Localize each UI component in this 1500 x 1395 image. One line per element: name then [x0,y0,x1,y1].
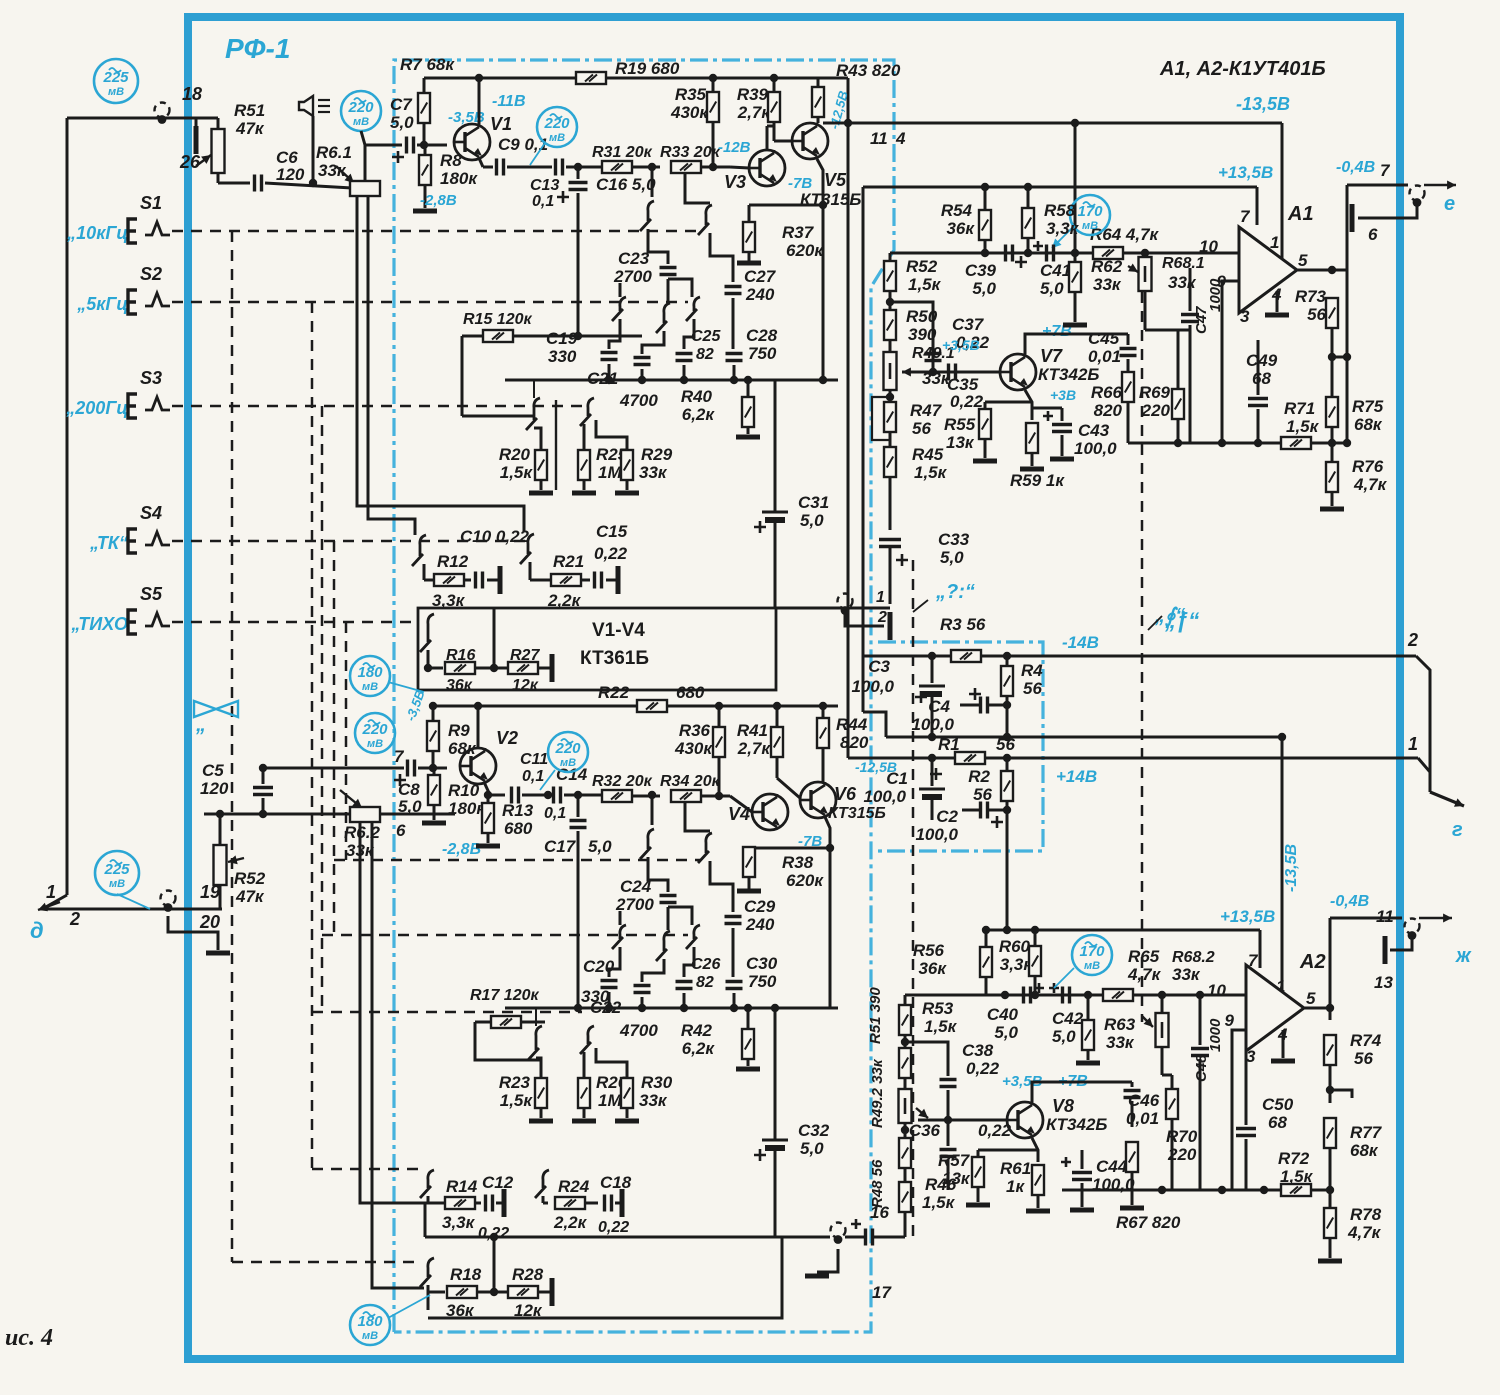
svg-text:R37: R37 [782,223,815,242]
svg-text:„?:“: „?:“ [935,581,975,603]
svg-text:3,3к: 3,3к [442,1213,476,1232]
svg-text:„ТИХО: „ТИХО [70,614,128,634]
svg-text:R51 390: R51 390 [867,987,884,1044]
svg-text:5,0: 5,0 [1052,1027,1076,1046]
svg-text:2,7к: 2,7к [737,739,772,758]
svg-text:+3,5В: +3,5В [942,337,980,353]
svg-text:С5: С5 [202,761,224,780]
svg-text:5,0: 5,0 [1040,279,1064,298]
svg-text:ис. 4: ис. 4 [5,1325,53,1351]
svg-text:V7: V7 [1040,346,1063,366]
svg-text:1: 1 [1270,233,1279,252]
svg-text:R60: R60 [999,937,1031,956]
svg-text:4,7к: 4,7к [1353,475,1388,494]
svg-text:+13,5В: +13,5В [1218,163,1273,182]
svg-text:7: 7 [1240,207,1251,226]
svg-text:V2: V2 [496,728,518,748]
svg-text:S4: S4 [140,503,162,523]
svg-text:1000: 1000 [1207,1018,1224,1052]
svg-text:47к: 47к [235,119,265,138]
svg-text:КТ315Б: КТ315Б [828,805,886,822]
svg-text:R59 1к: R59 1к [1010,471,1065,490]
svg-text:56: 56 [1354,1049,1373,1068]
svg-text:5,0: 5,0 [800,1139,824,1158]
svg-text:750: 750 [748,344,777,363]
svg-text:56: 56 [1307,305,1326,324]
svg-text:68к: 68к [1354,415,1383,434]
svg-text:100,0: 100,0 [1074,439,1117,458]
svg-text:-2,8В: -2,8В [442,841,481,858]
svg-text:РФ-1: РФ-1 [225,33,290,64]
svg-text:R52: R52 [906,257,938,276]
svg-text:V5: V5 [824,170,847,190]
svg-text:мВ: мВ [362,1330,378,1342]
svg-text:33к: 33к [1168,273,1197,292]
svg-text:R22: R22 [598,683,630,702]
svg-text:КТ342Б: КТ342Б [1046,1115,1107,1134]
svg-text:С41: С41 [1040,261,1071,280]
svg-text:33к: 33к [639,1091,668,1110]
svg-text:R47: R47 [910,401,943,420]
svg-text:R54: R54 [941,201,973,220]
svg-text:С44: С44 [1096,1157,1128,1176]
svg-text:С25: С25 [691,328,721,345]
svg-text:R42: R42 [681,1021,713,1040]
svg-text:R68.1: R68.1 [1162,255,1205,272]
svg-text:R56: R56 [913,941,945,960]
svg-text:-14В: -14В [1062,633,1099,652]
svg-text:20: 20 [199,912,220,932]
svg-text:1,5к: 1,5к [924,1017,958,1036]
svg-text:33к: 33к [1106,1033,1135,1052]
svg-text:г: г [1452,819,1463,841]
svg-text:S5: S5 [140,584,163,604]
svg-text:1к: 1к [1006,1177,1025,1196]
svg-text:R30: R30 [641,1073,673,1092]
svg-text:620к: 620к [786,871,824,890]
svg-text:47к: 47к [235,887,265,906]
svg-text:4700: 4700 [619,1021,658,1040]
svg-text:0,22: 0,22 [594,544,628,563]
svg-text:100,0: 100,0 [863,787,906,806]
svg-text:120: 120 [276,165,305,184]
svg-text:0,01: 0,01 [1126,1109,1159,1128]
svg-text:56: 56 [973,785,992,804]
svg-text:С40: С40 [987,1005,1019,1024]
svg-text:С2: С2 [936,807,958,826]
svg-text:4,7к: 4,7к [1127,965,1162,984]
svg-text:430к: 430к [670,103,709,122]
svg-text:33к: 33к [639,463,668,482]
svg-text:мВ: мВ [109,878,125,890]
svg-text:+3В: +3В [1050,387,1076,403]
svg-text:С30: С30 [746,954,778,973]
svg-text:R61: R61 [1000,1159,1031,1178]
svg-text:6,2к: 6,2к [682,405,716,424]
svg-text:R66: R66 [1091,383,1123,402]
svg-text:V3: V3 [724,172,746,192]
svg-text:-2,8В: -2,8В [420,192,457,209]
svg-text:R67 820: R67 820 [1116,1213,1181,1232]
svg-text:R23: R23 [499,1073,531,1092]
svg-text:5,0: 5,0 [390,113,414,132]
svg-text:R68.2: R68.2 [1172,949,1215,966]
svg-text:+14В: +14В [1056,767,1097,786]
svg-text:КТ342Б: КТ342Б [1038,365,1099,384]
svg-text:R4: R4 [1021,661,1043,680]
svg-text:1: 1 [1408,734,1418,754]
svg-text:R39: R39 [737,85,769,104]
svg-text:17: 17 [872,1283,892,1302]
svg-text:С23: С23 [618,249,650,268]
svg-text:С50: С50 [1262,1095,1294,1114]
svg-text:680: 680 [676,683,705,702]
svg-text:R2: R2 [968,767,990,786]
svg-text:R75: R75 [1352,397,1384,416]
svg-text:С13: С13 [530,177,559,194]
svg-text:18: 18 [182,84,202,104]
svg-text:R31 20к: R31 20к [592,144,653,161]
svg-text:680: 680 [504,819,533,838]
svg-text:100,0: 100,0 [911,715,954,734]
svg-text:С27: С27 [744,267,777,286]
svg-text:330: 330 [548,347,577,366]
svg-text:R63: R63 [1104,1015,1136,1034]
svg-text:„200Гц: „200Гц [65,398,128,418]
svg-text:R21: R21 [553,552,584,571]
svg-text:2: 2 [1407,630,1418,650]
svg-text:11: 11 [1376,907,1394,926]
svg-text:С49: С49 [1246,351,1278,370]
svg-text:5: 5 [1298,251,1308,270]
svg-text:R15 120к: R15 120к [463,311,532,328]
svg-text:С43: С43 [1078,421,1110,440]
svg-text:R41: R41 [737,721,768,740]
svg-text:68: 68 [1252,369,1271,388]
svg-text:V8: V8 [1052,1096,1074,1116]
svg-text:R6.1: R6.1 [316,143,352,162]
svg-text:А2: А2 [1299,951,1326,973]
svg-text:820: 820 [1094,401,1123,420]
svg-text:R49.2 33к: R49.2 33к [869,1058,886,1128]
svg-text:7: 7 [1380,161,1391,180]
svg-text:1,5к: 1,5к [500,463,534,482]
svg-text:5,0: 5,0 [588,837,612,856]
svg-text:R57: R57 [938,1151,971,1170]
svg-text:С36: С36 [909,1121,941,1140]
svg-text:-0,4В: -0,4В [1336,159,1375,176]
svg-text:13к: 13к [942,1169,971,1188]
svg-text:36к: 36к [946,219,975,238]
svg-text:мВ: мВ [108,86,124,98]
svg-text:R18: R18 [450,1265,482,1284]
svg-text:2: 2 [877,609,887,626]
svg-text:V6: V6 [834,784,857,804]
svg-text:1,5к: 1,5к [908,275,942,294]
svg-text:„ТК“: „ТК“ [89,533,128,553]
svg-text:82: 82 [696,974,714,991]
svg-text:R65: R65 [1128,947,1160,966]
svg-text:R3 56: R3 56 [940,615,986,634]
svg-text:С26: С26 [691,956,720,973]
svg-text:0,1: 0,1 [532,193,554,210]
svg-text:R69: R69 [1139,383,1171,402]
svg-text:10: 10 [1207,981,1226,1000]
svg-text:-11В: -11В [492,93,526,110]
svg-text:33к: 33к [1172,965,1201,984]
svg-text:С33: С33 [938,530,970,549]
svg-text:С7: С7 [390,95,413,114]
svg-text:R17 120к: R17 120к [470,987,539,1004]
svg-text:240: 240 [745,285,775,304]
svg-text:R24: R24 [558,1177,590,1196]
svg-text:R77: R77 [1350,1123,1383,1142]
svg-text:56: 56 [912,419,931,438]
svg-text:R36: R36 [679,721,711,740]
svg-text:56: 56 [1023,679,1042,698]
svg-text:е: е [1444,193,1455,215]
svg-text:1: 1 [46,882,56,902]
svg-text:R13: R13 [502,801,534,820]
svg-text:820: 820 [840,733,869,752]
svg-text:100,0: 100,0 [915,825,958,844]
svg-text:R38: R38 [782,853,814,872]
svg-text:С42: С42 [1052,1009,1084,1028]
svg-text:13к: 13к [946,433,975,452]
svg-text:220: 220 [1141,401,1171,420]
svg-text:6: 6 [1368,225,1378,244]
svg-text:С32: С32 [798,1121,830,1140]
svg-text:36к: 36к [446,677,473,694]
svg-text:R53: R53 [922,999,954,1018]
svg-text:-0,4В: -0,4В [1330,893,1369,910]
svg-text:1,5к: 1,5к [1286,417,1320,436]
svg-text:180к: 180к [440,169,478,188]
svg-text:R78: R78 [1350,1205,1382,1224]
svg-text:R55: R55 [944,415,976,434]
svg-text:„5кГц: „5кГц [76,294,128,314]
svg-text:R72: R72 [1278,1149,1310,1168]
svg-text:С28: С28 [746,326,778,345]
svg-text:мВ: мВ [362,681,378,693]
svg-text:С10 0,22: С10 0,22 [460,527,530,546]
svg-text:А1: А1 [1287,203,1314,225]
svg-text:33к: 33к [1093,275,1122,294]
svg-text:-13,5В: -13,5В [1236,94,1290,114]
svg-text:R35: R35 [675,85,707,104]
svg-text:4700: 4700 [619,391,658,410]
svg-text:R12: R12 [437,552,469,571]
svg-text:13: 13 [1374,973,1393,992]
svg-text:А1, А2-К1УТ401Б: А1, А2-К1УТ401Б [1159,58,1326,80]
svg-text:-7В: -7В [788,175,812,192]
svg-text:12к: 12к [512,677,539,694]
svg-text:9: 9 [1225,1011,1235,1030]
svg-text:100,0: 100,0 [851,677,894,696]
svg-text:R20: R20 [499,445,531,464]
svg-text:82: 82 [696,346,714,363]
svg-text:R51: R51 [234,101,265,120]
svg-text:1,5к: 1,5к [922,1193,956,1212]
svg-text:R7 68к: R7 68к [400,55,455,74]
svg-text:S3: S3 [140,368,162,388]
svg-text:мВ: мВ [1084,960,1100,972]
svg-text:R52: R52 [234,869,266,888]
svg-text:6: 6 [396,821,406,840]
svg-text:S2: S2 [140,264,162,284]
svg-text:4,7к: 4,7к [1347,1223,1382,1242]
svg-text:С3: С3 [868,657,890,676]
svg-text:2: 2 [69,909,80,929]
svg-text:V1-V4: V1-V4 [592,620,645,641]
svg-text:5,0: 5,0 [800,511,824,530]
svg-text:R45: R45 [912,445,944,464]
svg-text:1: 1 [876,589,885,606]
svg-text:S1: S1 [140,193,162,213]
svg-text:R9: R9 [448,721,470,740]
svg-text:0,01: 0,01 [1088,347,1121,366]
svg-text:0,22: 0,22 [598,1219,629,1236]
svg-text:620к: 620к [786,241,824,260]
svg-text:С1: С1 [886,769,908,788]
svg-text:R19 680: R19 680 [615,59,680,78]
svg-text:R14: R14 [446,1177,478,1196]
svg-text:R32 20к: R32 20к [592,773,653,790]
svg-text:750: 750 [748,972,777,991]
svg-text:5,0: 5,0 [994,1023,1018,1042]
svg-text:R74: R74 [1350,1031,1382,1050]
svg-text:С37: С37 [952,315,985,334]
svg-text:R28: R28 [512,1265,544,1284]
svg-text:R73: R73 [1295,287,1327,306]
svg-text:ж: ж [1455,945,1472,967]
svg-text:мВ: мВ [560,757,576,769]
svg-text:R71: R71 [1284,399,1315,418]
svg-text:С4: С4 [928,697,950,716]
svg-text:-12В: -12В [718,139,751,156]
svg-text:430к: 430к [674,739,713,758]
svg-text:R48 56: R48 56 [869,1159,886,1208]
svg-text:R43 820: R43 820 [836,61,901,80]
svg-text:R29: R29 [641,445,673,464]
svg-text:мВ: мВ [367,738,383,750]
svg-text:С15: С15 [596,522,628,541]
svg-text:R6.2: R6.2 [344,823,380,842]
svg-text:5: 5 [1306,989,1316,1008]
svg-text:КТ361Б: КТ361Б [580,648,649,669]
svg-text:R34 20к: R34 20к [660,773,721,790]
svg-text:5,0: 5,0 [972,279,996,298]
svg-text:+13,5В: +13,5В [1220,907,1275,926]
svg-text:С11: С11 [520,751,548,768]
svg-text:R76: R76 [1352,457,1384,476]
svg-text:68: 68 [1268,1113,1287,1132]
svg-text:С46: С46 [1128,1091,1160,1110]
svg-text:R40: R40 [681,387,713,406]
svg-text:3,3к: 3,3к [1046,219,1080,238]
svg-text:0,22: 0,22 [966,1059,1000,1078]
svg-text:С17: С17 [544,837,577,856]
svg-text:5,0: 5,0 [940,548,964,567]
svg-text:С48: С48 [1193,1054,1210,1082]
svg-text:1М: 1М [598,1091,622,1110]
svg-text:С16 5,0: С16 5,0 [596,175,656,194]
svg-text:„10кГц: „10кГц [66,223,128,243]
svg-text:мВ: мВ [1082,220,1098,232]
svg-text:мВ: мВ [549,132,565,144]
svg-text:11: 11 [870,129,888,148]
svg-text:R64 4,7к: R64 4,7к [1090,225,1160,244]
svg-text:26: 26 [179,152,201,172]
svg-text:240: 240 [745,915,775,934]
svg-text:„ƒ“: „ƒ“ [1164,608,1199,633]
svg-text:36к: 36к [918,959,947,978]
svg-text:-13,5В: -13,5В [1283,844,1300,892]
svg-text:6,2к: 6,2к [682,1039,716,1058]
svg-text:1М: 1М [598,463,622,482]
svg-text:мВ: мВ [353,116,369,128]
svg-text:V1: V1 [490,114,512,134]
svg-text:R58: R58 [1044,201,1076,220]
svg-text:С12: С12 [482,1173,514,1192]
svg-text:1,5к: 1,5к [500,1091,534,1110]
svg-text:1,5к: 1,5к [914,463,948,482]
svg-text:33к: 33к [318,161,347,180]
svg-text:2,7к: 2,7к [737,103,772,122]
svg-text:0,1: 0,1 [544,805,566,822]
svg-text:д: д [30,918,44,943]
svg-text:С18: С18 [600,1173,632,1192]
svg-text:7: 7 [394,747,405,766]
svg-text:4: 4 [895,129,906,148]
svg-text:С45: С45 [1088,329,1120,348]
svg-text:R44: R44 [836,715,868,734]
svg-text:„: „ [195,714,206,736]
svg-text:С39: С39 [965,261,997,280]
svg-text:С38: С38 [962,1041,994,1060]
svg-text:0,1: 0,1 [522,768,544,785]
svg-text:120: 120 [200,779,229,798]
svg-text:56: 56 [996,735,1015,754]
svg-text:С19: С19 [546,329,578,348]
svg-text:С31: С31 [798,493,829,512]
svg-text:С29: С29 [744,897,776,916]
svg-text:2,2к: 2,2к [553,1213,588,1232]
svg-text:68к: 68к [1350,1141,1379,1160]
